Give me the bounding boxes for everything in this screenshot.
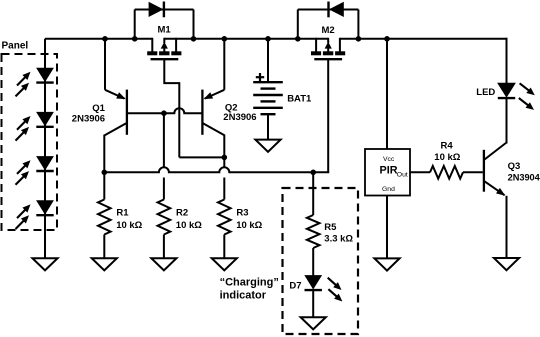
junction: Q1 emitter / rail	[102, 36, 108, 42]
wire: LED branch vertical from rail	[506, 38, 508, 84]
wire: Q1 collector down to mid rail	[103, 135, 105, 173]
LED D7 charging indicator	[289, 276, 342, 330]
wire: Q2 emitter from top rail	[223, 39, 225, 90]
svg-text:10 kΩ: 10 kΩ	[116, 220, 142, 231]
solar cell photodiode D2 (panel)	[16, 112, 54, 140]
wire: R3 top lead (below mid-rail hop)	[223, 178, 225, 200]
wire: R1 bottom lead	[103, 235, 105, 259]
resistor R4 10 k	[410, 141, 483, 179]
junction: PIR Vcc / rail	[384, 36, 390, 42]
svg-text:D7: D7	[289, 280, 301, 291]
svg-text:10 kΩ: 10 kΩ	[236, 220, 262, 231]
svg-text:LED: LED	[476, 87, 495, 98]
junction: Q1 collector to mid rail	[102, 170, 108, 176]
svg-text:“Charging”: “Charging”	[220, 277, 279, 289]
svg-text:M2: M2	[322, 25, 335, 36]
junction: BAT1 / rail	[265, 36, 271, 42]
svg-text:2N3906: 2N3906	[223, 112, 256, 123]
wire: Q2 collector down to node	[223, 135, 225, 158]
svg-text:Q3: Q3	[508, 161, 521, 172]
svg-text:R2: R2	[176, 207, 188, 218]
junction: M2 diode left / rail	[295, 36, 301, 42]
resistor R3 10 k	[212, 178, 263, 271]
svg-text:Q1: Q1	[92, 103, 105, 114]
wire: PIR Gnd to ground	[386, 196, 388, 259]
wire: top rail middle segment (M1 source to M2 source)	[164, 38, 328, 40]
wire: Q1 emitter from top rail	[104, 39, 106, 90]
resistor R1 10 k	[92, 172, 143, 270]
svg-text:10 kΩ: 10 kΩ	[434, 152, 460, 163]
svg-text:BAT1: BAT1	[287, 93, 312, 104]
svg-text:PIR: PIR	[380, 165, 398, 177]
junction: M2 diode right / rail	[356, 36, 362, 42]
PIR sensor module	[365, 39, 410, 271]
svg-text:Gnd: Gnd	[382, 186, 395, 193]
wire: Q3 emitter diagonal with arrow	[485, 181, 505, 195]
wire: Q3 emitter to ground	[506, 196, 508, 258]
solar panel enclosure (dashed)	[2, 54, 58, 230]
wire: diode loop right vertical	[193, 10, 195, 39]
bypass diode over M1 (anode left, cathode right)	[135, 2, 194, 39]
wire: Q3 collector diagonal	[485, 143, 507, 160]
svg-text:10 kΩ: 10 kΩ	[176, 220, 202, 231]
wire: R5 top lead from mid rail	[312, 172, 314, 215]
wire: mid rail right end to M2 gate	[313, 171, 329, 173]
LED main output	[476, 83, 535, 110]
wire: M1 gate down-jog-down to Q2 collector node	[164, 59, 179, 157]
svg-text:3.3 kΩ: 3.3 kΩ	[324, 234, 353, 245]
svg-text:Out: Out	[397, 171, 408, 178]
ground (D7)	[301, 317, 326, 329]
wire: diode loop left vertical	[297, 10, 299, 39]
junction: M1 diode left / rail	[132, 36, 138, 42]
svg-text:Vcc: Vcc	[383, 156, 395, 163]
ground (R3)	[212, 258, 237, 270]
wire: R2 top lead (below mid-rail hop)	[163, 178, 165, 200]
transistor Q3 2N3904 (NPN)	[484, 98, 540, 271]
wire: R2 bottom lead	[163, 235, 165, 259]
wire: D7 cathode to ground	[312, 290, 314, 317]
svg-text:Panel: Panel	[2, 41, 29, 52]
battery BAT1	[253, 39, 312, 152]
wire: Q1 base to Q2 base (with hop over M1 gate wire)	[127, 108, 202, 113]
mosfet M2 (P-channel, mirrored)	[311, 25, 345, 59]
bypass diode over M2 (anode right, cathode left)	[298, 2, 359, 39]
transistor Q1 2N3906 (PNP)	[72, 39, 127, 173]
label: plus sign	[256, 76, 264, 78]
wire: R2 branch from base node (above mid-rail hop)	[163, 113, 165, 166]
wire: top rail left segment (panel to M1 drain)	[45, 38, 152, 40]
wire: M2 gate down to mid rail	[327, 59, 329, 172]
wire: diode loop right vertical	[357, 10, 359, 39]
resistor R2 10 k	[151, 178, 202, 271]
junction: Q2 emitter / rail	[222, 36, 228, 42]
ground (R2)	[151, 258, 176, 270]
wire: node down toward R3 (above mid-rail hop)	[223, 157, 225, 166]
wire: PIR Vcc from top rail	[386, 39, 388, 149]
wire: R1 top lead	[103, 172, 105, 199]
wire: BAT1 negative lead	[267, 114, 269, 139]
mosfet M1 (P-channel)	[147, 24, 181, 59]
wire: R3 bottom lead	[223, 235, 225, 259]
solar cell photodiode D3 (panel)	[16, 157, 54, 185]
ground (R1)	[92, 258, 117, 270]
charging indicator enclosure (dashed)	[283, 188, 359, 334]
wire: panel cell chain vertical	[44, 39, 46, 259]
wire: R4 to Q3 base	[463, 171, 483, 173]
solar cell photodiode D4 (panel)	[16, 201, 54, 229]
ground (panel)	[32, 258, 57, 270]
ground (battery)	[255, 140, 280, 152]
wire: diode loop left vertical	[134, 10, 136, 39]
junction: mid rail to R5	[310, 170, 316, 176]
solar cell photodiode D1 (panel)	[16, 68, 54, 96]
svg-text:indicator: indicator	[220, 290, 267, 302]
wire: PIR Out to R4	[410, 171, 430, 173]
svg-text:R3: R3	[236, 207, 248, 218]
junction: base node to R2	[161, 110, 167, 116]
svg-text:M1: M1	[158, 24, 172, 35]
svg-text:R5: R5	[324, 222, 337, 233]
svg-text:2N3904: 2N3904	[508, 173, 540, 183]
wire: R5 to D7	[312, 248, 314, 276]
resistor R5 3.3 k	[307, 172, 354, 276]
svg-text:R4: R4	[441, 141, 454, 152]
svg-text:R1: R1	[116, 207, 129, 218]
wire: top rail right segment (M2 drain to LED)	[340, 38, 508, 40]
wire: mid rail from Q1 collector to R5 node (hops over R2, R3 wires)	[104, 167, 313, 172]
ground (PIR)	[374, 258, 399, 270]
junction: Q2 collector / M1 gate / R3 node	[222, 155, 228, 161]
ground (Q3)	[494, 258, 519, 270]
transistor Q2 2N3906 (PNP)	[202, 39, 256, 158]
junction: M1 diode right / rail	[191, 36, 197, 42]
wire: LED cathode to Q3 collector	[506, 98, 508, 144]
wire: BAT1 positive lead from rail	[267, 39, 269, 82]
svg-text:2N3906: 2N3906	[72, 114, 105, 125]
wire: M1 gate horizontal to node at Q2 collector	[179, 156, 224, 158]
